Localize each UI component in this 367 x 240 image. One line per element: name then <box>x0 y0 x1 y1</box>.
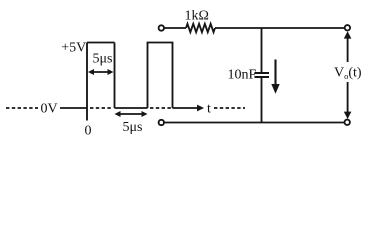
wire dashed axis under pulse 2 <box>150 107 171 109</box>
dimension arrow 5us between pulses <box>117 113 145 115</box>
wire pulse 1 falling edge <box>114 43 116 109</box>
voltage arrow Vo lower half <box>347 82 349 112</box>
svg-text:+5V: +5V <box>61 41 86 56</box>
svg-text:1kΩ: 1kΩ <box>185 9 209 24</box>
capacitor plate bottom <box>255 76 270 78</box>
wire resistor to output terminal <box>215 27 345 29</box>
svg-text:Vo(t): Vo(t) <box>334 66 362 82</box>
wire baseline between pulses <box>115 107 148 109</box>
svg-text:t: t <box>207 102 211 117</box>
svg-text:0V: 0V <box>41 102 58 117</box>
svg-text:5μs: 5μs <box>123 120 143 135</box>
wire pulse 2 <box>148 43 173 109</box>
current arrow through capacitor <box>274 60 276 86</box>
node vertical axis with tick below baseline <box>86 43 88 121</box>
terminal input top <box>159 25 164 30</box>
wire dashed after t <box>214 107 245 109</box>
svg-text:0: 0 <box>85 124 92 139</box>
wire 0V dashed lead-in <box>6 107 38 109</box>
wire dashed axis under pulse 1 <box>90 107 113 109</box>
wire bottom rail <box>164 122 345 124</box>
wire pulse 1 top <box>87 42 115 44</box>
wire t axis with arrowhead <box>173 107 202 109</box>
terminal output top <box>345 25 350 30</box>
capacitor bottom lead <box>261 78 263 123</box>
svg-text:10nF: 10nF <box>228 68 257 83</box>
terminal input bottom <box>159 120 164 125</box>
wire input top to resistor <box>164 27 186 29</box>
dimension arrow 5us inside pulse 1 <box>90 71 112 73</box>
capacitor C1 10nF top lead <box>261 28 263 72</box>
resistor R1 1k zigzag <box>186 24 215 32</box>
wire 0V solid segment <box>60 107 87 109</box>
svg-text:5μs: 5μs <box>93 52 113 67</box>
voltage arrow Vo upper half <box>347 34 349 62</box>
terminal output bottom <box>345 120 350 125</box>
capacitor plate top <box>255 72 270 74</box>
